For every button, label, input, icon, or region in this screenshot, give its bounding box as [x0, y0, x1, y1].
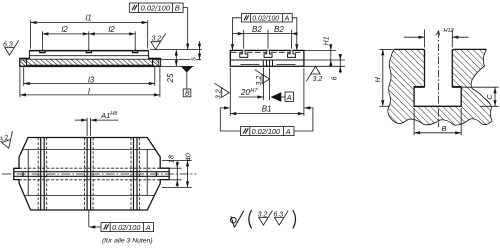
- hidden line below top: [231, 51, 303, 53]
- plate body: [230, 50, 304, 66]
- groove cavity hidden lines: [19, 168, 160, 180]
- svg-text:25: 25: [166, 73, 175, 83]
- svg-text:0.02/100: 0.02/100: [112, 223, 140, 232]
- dimension B: [414, 108, 461, 135]
- svg-text:B: B: [185, 91, 190, 98]
- svg-text:A: A: [435, 29, 441, 38]
- inner line upper body: [29, 55, 148, 57]
- svg-text:40: 40: [183, 152, 192, 161]
- svg-text:(für alle 3 Nuten): (für alle 3 Nuten): [102, 238, 153, 245]
- key end block right (section): [153, 59, 159, 66]
- svg-text:3.2: 3.2: [256, 76, 263, 86]
- dimension 6: [304, 54, 345, 80]
- dimension B1: [230, 68, 304, 116]
- svg-text:A: A: [286, 93, 292, 102]
- dimension H1: [304, 36, 336, 66]
- dimension H: [373, 49, 393, 106]
- dimension l: [20, 68, 160, 98]
- svg-text:l2: l2: [62, 25, 69, 34]
- svg-text:H8: H8: [110, 111, 117, 117]
- close paren: [293, 210, 296, 228]
- plate outline: [14, 138, 169, 211]
- slot notch 3: [133, 51, 138, 53]
- general symbol with circle: [231, 211, 244, 228]
- dimension 25: [150, 50, 202, 84]
- svg-text:H1: H1: [324, 36, 331, 45]
- svg-text:18: 18: [167, 154, 176, 163]
- dimension 20 H7 with datum A: [239, 68, 294, 102]
- surface finish 3.2 plan: [0, 131, 18, 150]
- svg-text:0.02/100: 0.02/100: [252, 127, 280, 136]
- dimension 18: [167, 154, 182, 187]
- svg-text:B2: B2: [274, 25, 284, 34]
- T-slot 3 profile: [288, 50, 296, 57]
- surface finish 3.2 right (bottom face): [306, 66, 322, 83]
- surface finish 3.2 top right: [151, 34, 166, 50]
- leaders top frame to surface: [231, 18, 299, 50]
- svg-text:A1: A1: [100, 111, 110, 120]
- T-slot 1 profile: [240, 50, 248, 57]
- surface finish 6.3 left: [3, 40, 19, 55]
- datum B symbol: [181, 67, 193, 98]
- leader from frame B to top surface: [183, 8, 189, 50]
- dimension 40: [162, 152, 192, 187]
- svg-text:H7: H7: [250, 88, 258, 94]
- dimension l3: [24, 68, 155, 86]
- dimension A H12: [404, 28, 469, 47]
- svg-text:B1: B1: [262, 105, 272, 114]
- svg-text:l2: l2: [109, 25, 116, 34]
- T-slot 2 profile: [264, 50, 272, 57]
- slot 3 lines: [131, 138, 140, 211]
- leaders bottom frame to side faces: [220, 106, 313, 131]
- slot 1 lines: [38, 138, 47, 211]
- svg-text:3.2: 3.2: [216, 89, 223, 99]
- slot notch 1: [40, 51, 45, 53]
- leader plan frame: [89, 211, 101, 229]
- svg-text:0.02/100: 0.02/100: [141, 3, 171, 12]
- finish 3.2 in parens: [258, 211, 273, 226]
- groove slit lines: [14, 172, 169, 177]
- dimension l1: [31, 14, 148, 49]
- svg-text:B2: B2: [252, 25, 262, 34]
- svg-text:0.02/100: 0.02/100: [252, 15, 279, 22]
- slot notch 2: [86, 51, 91, 53]
- surface finish 3.2 on key side face (rotated): [255, 70, 270, 86]
- dimension A1 H8: [75, 111, 119, 136]
- surface finish 3.2 left side (rotated): [214, 83, 229, 99]
- tolerance frame plan 0.02/100 A: [101, 223, 154, 232]
- svg-text:6.3: 6.3: [3, 42, 13, 49]
- finish 6.3 in parens: [273, 211, 288, 226]
- material with hatch: [388, 49, 492, 125]
- svg-text:l1: l1: [86, 14, 92, 23]
- svg-text:3.2: 3.2: [0, 134, 10, 144]
- svg-text:20: 20: [240, 88, 250, 97]
- svg-text:3.2: 3.2: [152, 35, 162, 42]
- svg-text:3.2: 3.2: [313, 76, 323, 83]
- svg-text:A: A: [145, 223, 151, 232]
- svg-text:C: C: [485, 94, 494, 100]
- svg-text:6: 6: [332, 76, 339, 80]
- tolerance frame parallelism 0.02/100 A (bottom): [241, 127, 295, 136]
- svg-text:B: B: [175, 3, 180, 12]
- svg-text:A: A: [285, 127, 291, 136]
- tolerance frame parallelism 0.02/100 B: [129, 3, 183, 12]
- svg-text:l3: l3: [88, 75, 95, 84]
- groove centerline: [2, 173, 197, 175]
- center key block: [263, 60, 272, 66]
- hatched groove section band: [27, 59, 153, 65]
- hidden line in band: [241, 63, 260, 65]
- svg-text:6.3: 6.3: [273, 212, 283, 219]
- svg-text:l: l: [88, 87, 90, 96]
- svg-text:B: B: [442, 124, 447, 133]
- dimension s: [159, 41, 201, 61]
- svg-text:A: A: [284, 15, 290, 22]
- svg-text:H12: H12: [444, 28, 455, 34]
- centerline: [437, 31, 439, 128]
- inner body rectangle: [23, 150, 156, 196]
- open paren: [249, 210, 252, 228]
- dimension l2 l2: [42, 25, 135, 51]
- key end block left (section): [20, 60, 27, 66]
- flange body outline: [20, 51, 161, 67]
- svg-text:H: H: [373, 77, 382, 83]
- svg-text:s: s: [189, 57, 198, 61]
- svg-text:3.2: 3.2: [258, 212, 268, 219]
- slot 2 lines: [85, 138, 94, 211]
- dimension B2 B2 with frame leaders: [232, 25, 297, 49]
- dimension C: [462, 87, 499, 106]
- tolerance frame parallelism 0.02/100 A (top): [242, 14, 293, 23]
